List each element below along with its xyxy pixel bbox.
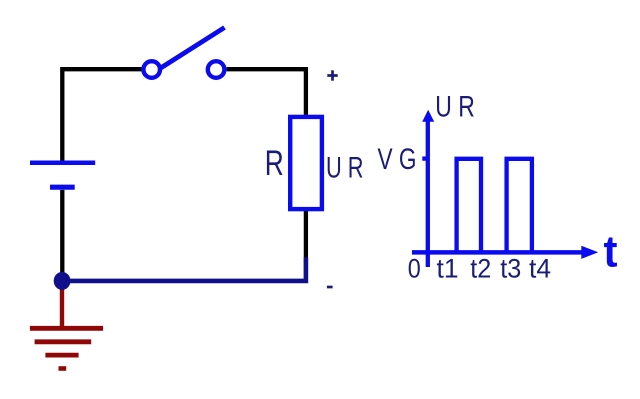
wire top-right: from switch right to resistor top bbox=[227, 69, 306, 115]
svg-text:t2: t2 bbox=[470, 253, 491, 284]
battery E short plate bbox=[50, 185, 75, 190]
minus polarity mark bbox=[327, 286, 333, 289]
svg-text:t1: t1 bbox=[437, 253, 459, 284]
wire: bottom return (navy) bbox=[62, 257, 306, 281]
battery E long plate bbox=[30, 161, 95, 166]
svg-text:U R: U R bbox=[326, 152, 364, 184]
graph vertical axis arrowhead bbox=[422, 110, 434, 122]
ground bar 3 bbox=[45, 353, 78, 358]
pulse 1 (t1-t2) bbox=[457, 159, 481, 253]
plus polarity mark bbox=[327, 70, 337, 80]
pulse 2 (t3-t4) bbox=[507, 159, 532, 253]
ground bar 1 bbox=[30, 326, 103, 331]
switch S blade (open) bbox=[160, 28, 224, 69]
ground bar 4 bbox=[59, 366, 67, 371]
svg-text:V G: V G bbox=[378, 143, 417, 176]
svg-text:t4: t4 bbox=[529, 253, 551, 284]
wire: resistor bottom (black part) bbox=[304, 211, 308, 258]
graph horizontal axis (t axis) bbox=[412, 250, 583, 255]
graph vertical axis (UR axis) bbox=[426, 118, 430, 268]
ground stem bbox=[60, 283, 64, 330]
graph horizontal axis arrowhead bbox=[581, 246, 598, 259]
svg-text:t: t bbox=[604, 228, 618, 277]
svg-text:R: R bbox=[265, 143, 284, 183]
svg-text:0: 0 bbox=[408, 253, 421, 284]
switch S contact circle left bbox=[143, 61, 160, 78]
resistor R body bbox=[290, 117, 322, 209]
wire: battery to ground node bbox=[60, 190, 64, 281]
node junction dot bbox=[54, 272, 71, 290]
switch S contact circle right bbox=[208, 61, 225, 78]
svg-text:U R: U R bbox=[435, 91, 475, 124]
wire top-left: from battery up and right to switch bbox=[62, 69, 143, 161]
svg-text:t3: t3 bbox=[500, 253, 521, 284]
ground bar 2 bbox=[35, 339, 92, 344]
VG level tick bbox=[422, 156, 428, 160]
